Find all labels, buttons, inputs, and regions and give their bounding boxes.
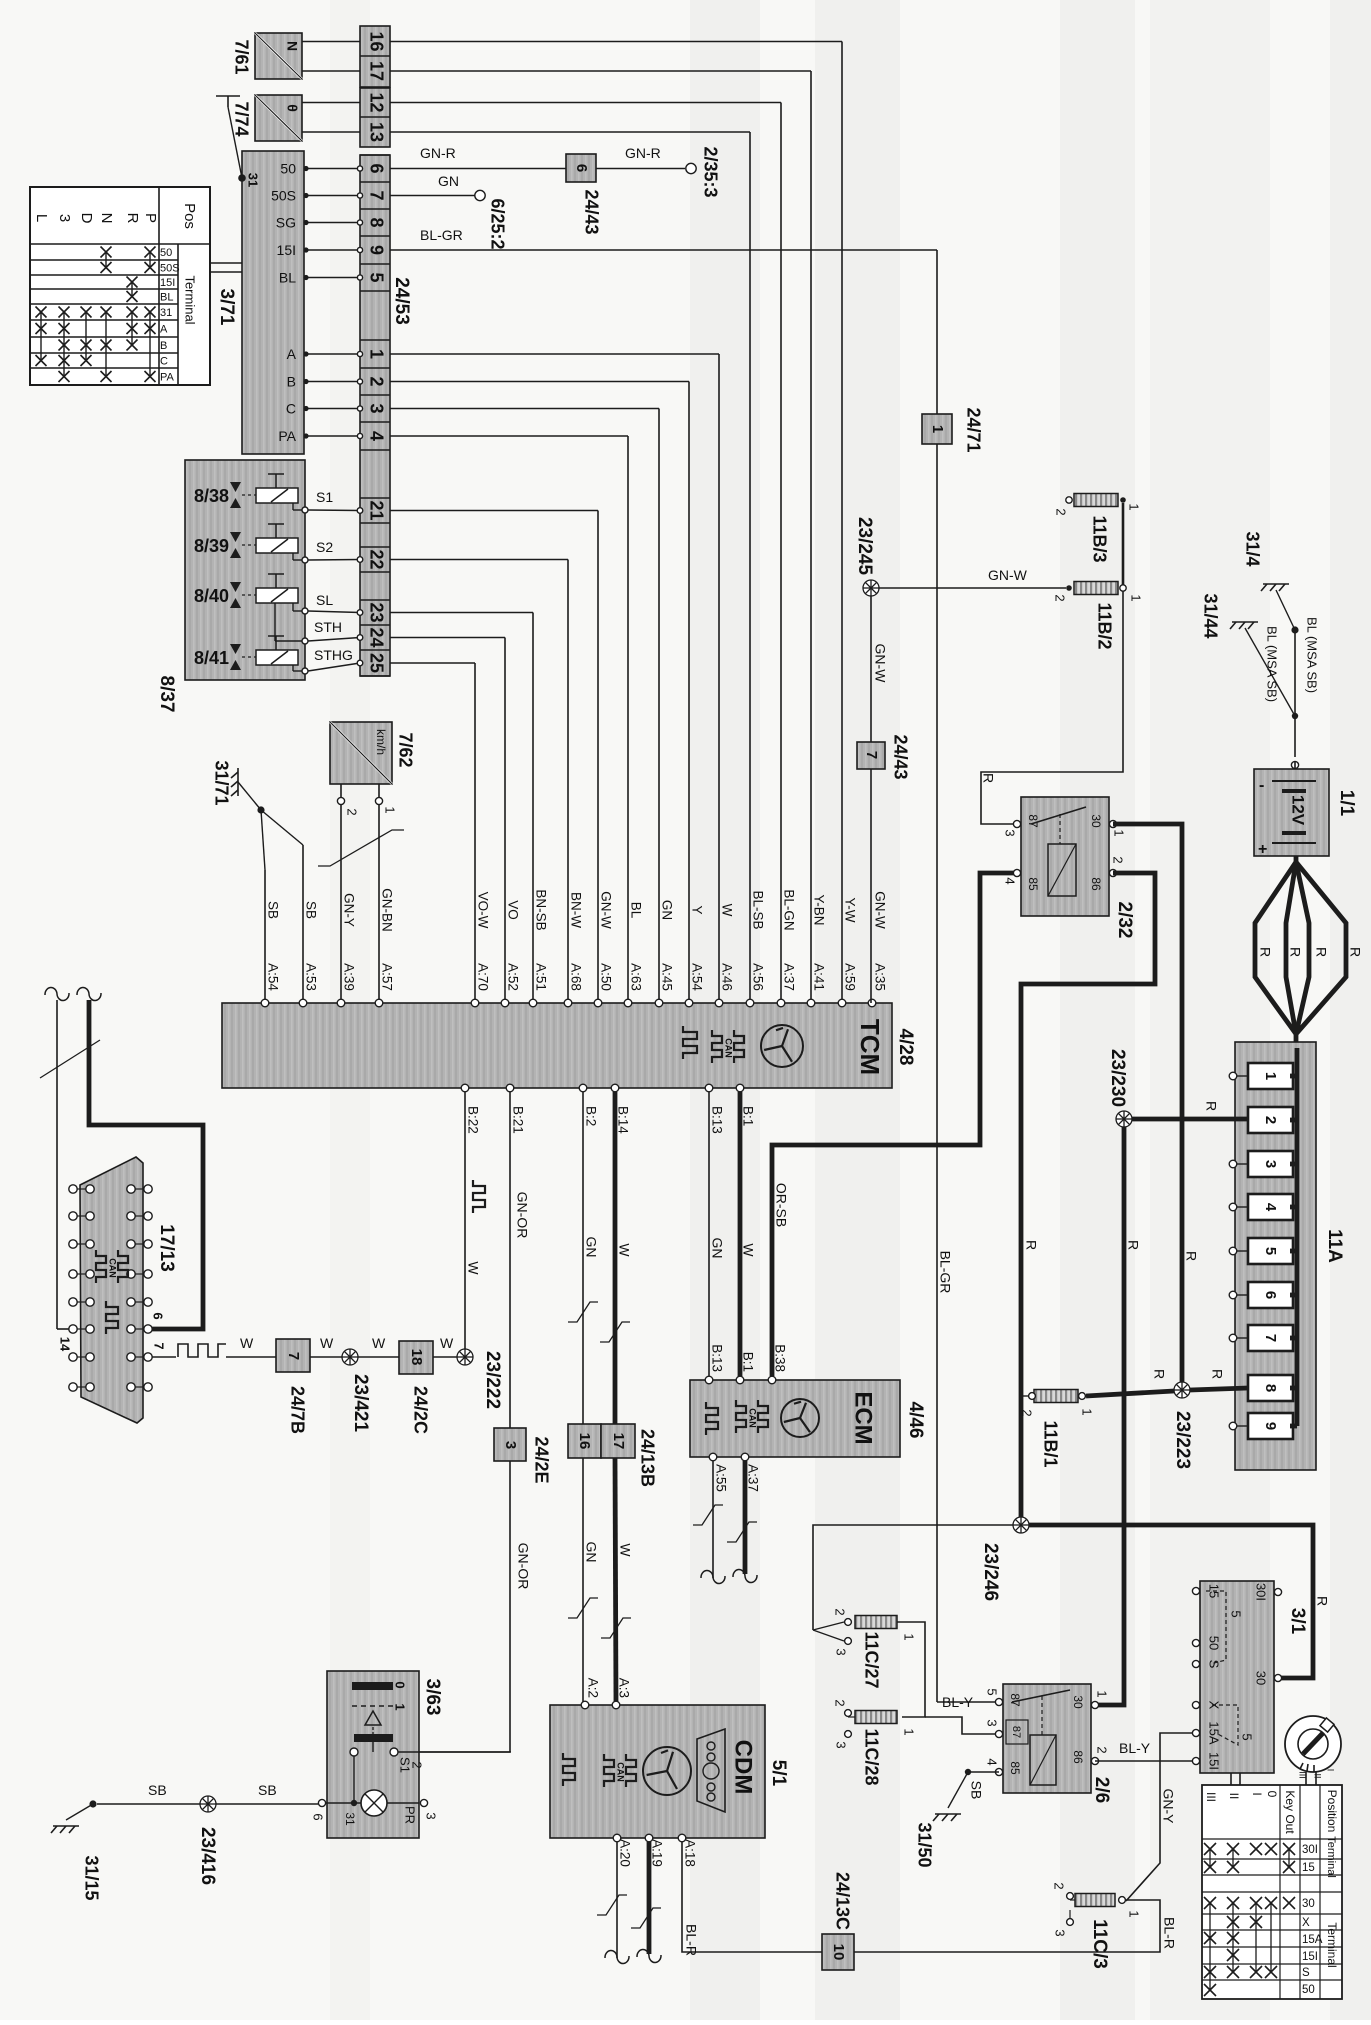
- svg-text:BL-R: BL-R: [683, 1924, 699, 1956]
- svg-text:11B/1: 11B/1: [1040, 1420, 1060, 1467]
- svg-text:31/44: 31/44: [1200, 593, 1220, 638]
- svg-text:2: 2: [1111, 856, 1126, 863]
- svg-text:BL: BL: [628, 902, 643, 919]
- svg-text:50: 50: [1207, 1636, 1222, 1650]
- svg-text:1: 1: [1262, 1072, 1279, 1080]
- svg-text:6: 6: [151, 1312, 166, 1319]
- svg-text:30: 30: [1089, 814, 1103, 828]
- svg-text:Position: Position: [1325, 1790, 1339, 1833]
- svg-text:R: R: [1151, 1369, 1167, 1379]
- svg-text:31/4: 31/4: [1242, 531, 1262, 566]
- svg-text:R: R: [1203, 1101, 1219, 1111]
- svg-text:A:52: A:52: [505, 963, 520, 991]
- svg-text:VO: VO: [505, 900, 520, 920]
- svg-text:W: W: [719, 904, 734, 917]
- svg-text:3: 3: [1262, 1160, 1279, 1168]
- svg-text:I: I: [1250, 1792, 1264, 1795]
- svg-text:W: W: [320, 1335, 334, 1351]
- svg-text:III: III: [1204, 1792, 1218, 1802]
- svg-text:24: 24: [366, 627, 386, 647]
- svg-text:A:53: A:53: [303, 963, 318, 991]
- svg-text:3/63: 3/63: [422, 1679, 443, 1716]
- svg-text:Y-W: Y-W: [842, 897, 857, 922]
- svg-text:1: 1: [1129, 594, 1144, 601]
- svg-text:2/35:3: 2/35:3: [700, 146, 720, 197]
- svg-text:1: 1: [1095, 1690, 1110, 1697]
- svg-text:+: +: [1258, 841, 1267, 858]
- svg-text:GN-W: GN-W: [872, 644, 888, 684]
- svg-text:23/230: 23/230: [1107, 1049, 1128, 1107]
- svg-text:15I: 15I: [1207, 1752, 1222, 1770]
- svg-text:A:41: A:41: [811, 963, 826, 991]
- svg-text:S: S: [1302, 1967, 1310, 1979]
- svg-text:2: 2: [410, 1761, 425, 1768]
- svg-text:P: P: [142, 213, 159, 223]
- svg-text:17: 17: [610, 1433, 627, 1450]
- svg-text:R: R: [1287, 947, 1303, 957]
- svg-text:4: 4: [1003, 877, 1018, 884]
- svg-text:24/7B: 24/7B: [287, 1386, 307, 1434]
- svg-text:B:38: B:38: [772, 1344, 787, 1372]
- svg-text:C: C: [160, 356, 168, 368]
- svg-text:3: 3: [834, 1648, 849, 1655]
- svg-text:13: 13: [366, 122, 386, 142]
- svg-text:A: A: [160, 324, 168, 336]
- svg-text:85: 85: [1008, 1761, 1022, 1775]
- svg-text:1: 1: [929, 425, 946, 433]
- svg-text:A:68: A:68: [568, 963, 583, 991]
- svg-text:7: 7: [152, 1342, 167, 1349]
- svg-text:50S: 50S: [271, 188, 296, 204]
- svg-text:A:54: A:54: [689, 963, 704, 991]
- svg-text:A:56: A:56: [750, 963, 765, 991]
- svg-text:R: R: [1313, 947, 1329, 957]
- svg-text:GN: GN: [709, 1238, 725, 1259]
- svg-text:11A: 11A: [1324, 1229, 1345, 1263]
- svg-text:A:20: A:20: [617, 1839, 632, 1867]
- svg-text:4: 4: [1262, 1203, 1279, 1212]
- svg-text:23: 23: [366, 602, 386, 622]
- svg-text:II: II: [1313, 1773, 1323, 1778]
- svg-text:Key Out: Key Out: [1283, 1790, 1297, 1834]
- svg-text:2: 2: [1095, 1746, 1110, 1753]
- svg-text:0: 0: [1265, 1791, 1279, 1798]
- svg-text:Y-BN: Y-BN: [811, 894, 826, 925]
- svg-text:7: 7: [863, 751, 880, 759]
- svg-text:4: 4: [985, 1758, 1000, 1765]
- svg-text:50: 50: [160, 247, 172, 259]
- svg-text:A:51: A:51: [533, 963, 548, 991]
- svg-text:24/2E: 24/2E: [531, 1436, 551, 1483]
- svg-text:B: B: [160, 340, 167, 352]
- svg-text:5/1: 5/1: [768, 1760, 789, 1787]
- svg-text:16: 16: [576, 1433, 593, 1450]
- svg-text:23/416: 23/416: [197, 1827, 218, 1885]
- svg-text:7/62: 7/62: [395, 732, 415, 767]
- svg-text:B:14: B:14: [615, 1106, 630, 1134]
- svg-text:85: 85: [1026, 877, 1040, 891]
- svg-text:B:1: B:1: [740, 1352, 755, 1372]
- svg-text:2: 2: [833, 1699, 848, 1706]
- svg-text:GN-OR: GN-OR: [515, 1543, 531, 1590]
- svg-text:2: 2: [366, 376, 386, 386]
- svg-text:14: 14: [58, 1337, 73, 1352]
- svg-text:31/71: 31/71: [211, 760, 231, 805]
- svg-text:OR-SB: OR-SB: [773, 1183, 789, 1227]
- svg-text:2: 2: [1054, 508, 1069, 515]
- svg-text:30: 30: [1254, 1671, 1269, 1685]
- svg-text:A:37: A:37: [781, 963, 796, 991]
- svg-text:10: 10: [830, 1944, 847, 1961]
- svg-text:W: W: [240, 1335, 254, 1351]
- svg-text:11C/28: 11C/28: [861, 1728, 881, 1785]
- svg-text:C: C: [286, 401, 296, 417]
- svg-text:R: R: [980, 773, 996, 783]
- svg-text:11B/3: 11B/3: [1089, 515, 1109, 562]
- svg-text:A:59: A:59: [842, 963, 857, 991]
- svg-text:22: 22: [366, 549, 386, 569]
- svg-text:CDM: CDM: [730, 1740, 757, 1795]
- svg-text:A:3: A:3: [616, 1678, 631, 1698]
- svg-text:1: 1: [393, 1703, 408, 1710]
- svg-text:R: R: [1347, 947, 1363, 957]
- svg-text:2: 2: [345, 808, 360, 815]
- svg-text:B:2: B:2: [583, 1106, 598, 1126]
- svg-text:A: A: [287, 346, 297, 362]
- svg-text:ECM: ECM: [850, 1391, 877, 1444]
- svg-text:23/421: 23/421: [350, 1374, 371, 1433]
- svg-text:15I: 15I: [277, 242, 296, 258]
- svg-text:11B/2: 11B/2: [1094, 602, 1114, 649]
- svg-text:W: W: [440, 1335, 454, 1351]
- svg-text:Pos: Pos: [181, 203, 198, 229]
- svg-text:A:19: A:19: [649, 1839, 664, 1867]
- svg-text:23/223: 23/223: [1172, 1411, 1193, 1469]
- svg-text:8/41: 8/41: [194, 648, 229, 668]
- svg-text:BN-SB: BN-SB: [533, 889, 548, 930]
- svg-text:R: R: [1209, 1369, 1225, 1379]
- svg-text:BL-SB: BL-SB: [750, 890, 765, 929]
- svg-text:GN-W: GN-W: [988, 567, 1028, 583]
- svg-text:30: 30: [1302, 1898, 1315, 1910]
- svg-text:6: 6: [573, 164, 590, 172]
- svg-text:2/6: 2/6: [1091, 1777, 1112, 1803]
- svg-text:CAN: CAN: [748, 1408, 758, 1428]
- svg-text:7: 7: [285, 1352, 302, 1360]
- svg-text:SL: SL: [316, 592, 333, 608]
- svg-text:21: 21: [366, 500, 386, 520]
- svg-text:7/74: 7/74: [231, 101, 251, 136]
- svg-text:STHG: STHG: [314, 647, 353, 663]
- svg-text:1: 1: [1080, 1408, 1095, 1415]
- svg-text:BN-W: BN-W: [568, 892, 583, 928]
- svg-text:BL-GR: BL-GR: [937, 1251, 953, 1294]
- svg-text:A:37: A:37: [745, 1464, 760, 1492]
- svg-text:3: 3: [834, 1741, 849, 1748]
- svg-text:12V: 12V: [1289, 795, 1308, 826]
- svg-text:8/38: 8/38: [194, 486, 229, 506]
- svg-text:24/43: 24/43: [890, 734, 910, 779]
- svg-text:A:35: A:35: [872, 963, 887, 991]
- svg-text:BL-R: BL-R: [1161, 1917, 1177, 1949]
- svg-text:W: W: [372, 1335, 386, 1351]
- svg-text:-: -: [1259, 777, 1264, 794]
- svg-text:GN: GN: [583, 1237, 599, 1258]
- svg-text:1: 1: [366, 349, 386, 359]
- svg-text:1: 1: [902, 1633, 917, 1640]
- svg-text:4: 4: [366, 431, 386, 441]
- svg-text:7/61: 7/61: [231, 39, 251, 74]
- svg-text:SB: SB: [148, 1782, 167, 1798]
- svg-text:8: 8: [1262, 1384, 1279, 1392]
- svg-text:9: 9: [366, 245, 386, 255]
- svg-text:N: N: [98, 213, 115, 224]
- svg-text:24/53: 24/53: [391, 277, 412, 325]
- svg-text:B:21: B:21: [510, 1106, 525, 1134]
- svg-text:50: 50: [280, 161, 296, 177]
- svg-text:L: L: [33, 214, 50, 222]
- svg-text:A:55: A:55: [713, 1464, 728, 1492]
- svg-text:2: 2: [833, 1608, 848, 1615]
- svg-text:A:70: A:70: [475, 963, 490, 991]
- svg-text:GN-OR: GN-OR: [514, 1192, 530, 1239]
- svg-text:25: 25: [366, 653, 386, 673]
- svg-text:3/1: 3/1: [1287, 1608, 1308, 1635]
- svg-text:15A: 15A: [1207, 1721, 1222, 1744]
- svg-text:8/39: 8/39: [194, 536, 229, 556]
- svg-text:24/43: 24/43: [581, 189, 601, 234]
- svg-text:87: 87: [1010, 1726, 1022, 1738]
- svg-text:23/246: 23/246: [980, 1543, 1001, 1601]
- svg-text:3/71: 3/71: [216, 289, 237, 326]
- svg-text:1: 1: [902, 1728, 917, 1735]
- svg-text:31/15: 31/15: [81, 1855, 101, 1900]
- svg-text:A:18: A:18: [682, 1839, 697, 1867]
- svg-text:GN: GN: [583, 1542, 599, 1563]
- svg-text:31: 31: [246, 173, 261, 187]
- svg-text:3: 3: [1003, 829, 1018, 836]
- svg-text:GN-Y: GN-Y: [1160, 1789, 1176, 1825]
- svg-text:B: B: [287, 374, 296, 390]
- svg-text:3: 3: [502, 1441, 519, 1449]
- svg-text:A:39: A:39: [341, 963, 356, 991]
- svg-text:23/245: 23/245: [854, 517, 875, 576]
- svg-text:SG: SG: [276, 215, 296, 231]
- svg-text:3: 3: [366, 403, 386, 413]
- svg-text:R: R: [1125, 1240, 1141, 1250]
- svg-text:SB: SB: [968, 1781, 984, 1800]
- svg-text:X: X: [1302, 1917, 1310, 1929]
- svg-text:W: W: [465, 1261, 481, 1275]
- svg-text:86: 86: [1089, 877, 1103, 891]
- svg-text:S2: S2: [316, 539, 333, 555]
- svg-text:S: S: [1207, 1660, 1222, 1669]
- svg-text:I: I: [1326, 1769, 1336, 1772]
- svg-text:30: 30: [1071, 1695, 1085, 1709]
- svg-text:km/h: km/h: [374, 729, 388, 755]
- svg-text:7: 7: [1262, 1334, 1279, 1342]
- svg-text:θ: θ: [284, 104, 300, 112]
- svg-text:6: 6: [311, 1813, 326, 1820]
- svg-text:1: 1: [1127, 503, 1142, 510]
- svg-text:W: W: [616, 1243, 632, 1257]
- svg-text:31: 31: [343, 1812, 357, 1826]
- svg-text:6: 6: [366, 163, 386, 173]
- svg-text:A:2: A:2: [585, 1678, 600, 1698]
- svg-text:31/50: 31/50: [914, 1822, 934, 1867]
- svg-text:TCM: TCM: [855, 1019, 885, 1075]
- svg-text:7: 7: [366, 190, 386, 200]
- svg-text:8/37: 8/37: [156, 676, 177, 713]
- svg-text:5: 5: [1229, 1610, 1244, 1617]
- svg-text:11C/27: 11C/27: [861, 1631, 881, 1688]
- svg-text:2: 2: [1053, 594, 1068, 601]
- svg-text:15I: 15I: [1302, 1951, 1318, 1963]
- svg-text:R: R: [1023, 1240, 1039, 1250]
- svg-text:2: 2: [1020, 1409, 1035, 1416]
- svg-text:9: 9: [1262, 1422, 1279, 1430]
- svg-text:BL-GR: BL-GR: [420, 227, 463, 243]
- svg-text:GN-W: GN-W: [598, 891, 613, 929]
- svg-text:A:50: A:50: [598, 963, 613, 991]
- svg-text:A:54: A:54: [265, 963, 280, 991]
- svg-text:B:13: B:13: [709, 1344, 724, 1372]
- svg-text:5: 5: [366, 272, 386, 282]
- svg-text:A:63: A:63: [628, 963, 643, 991]
- svg-text:SB: SB: [258, 1782, 277, 1798]
- svg-text:3: 3: [424, 1812, 439, 1819]
- svg-text:3: 3: [56, 214, 73, 222]
- svg-text:5: 5: [985, 1688, 1000, 1695]
- svg-text:BL (MSA SB): BL (MSA SB): [1265, 626, 1280, 702]
- svg-text:GN-BN: GN-BN: [379, 888, 394, 932]
- svg-text:VO-W: VO-W: [475, 892, 490, 929]
- svg-text:GN-R: GN-R: [420, 145, 456, 161]
- svg-text:3: 3: [985, 1719, 1000, 1726]
- svg-text:GN-Y: GN-Y: [341, 893, 356, 927]
- svg-text:B:22: B:22: [465, 1106, 480, 1134]
- svg-text:Terminal: Terminal: [1325, 1922, 1339, 1967]
- svg-text:18: 18: [408, 1349, 425, 1366]
- svg-text:B:13: B:13: [709, 1106, 724, 1134]
- svg-text:1: 1: [1112, 829, 1127, 836]
- svg-text:R: R: [1183, 1251, 1199, 1261]
- svg-text:30I: 30I: [1254, 1583, 1269, 1601]
- svg-text:5: 5: [1262, 1247, 1279, 1255]
- svg-text:GN-R: GN-R: [625, 145, 661, 161]
- svg-text:PR: PR: [403, 1806, 418, 1824]
- svg-text:BL: BL: [160, 292, 173, 304]
- svg-text:6: 6: [1262, 1291, 1279, 1299]
- svg-text:A:45: A:45: [659, 963, 674, 991]
- svg-text:15I: 15I: [160, 277, 175, 289]
- svg-text:D: D: [78, 213, 95, 224]
- svg-text:31: 31: [160, 307, 172, 319]
- svg-text:30I: 30I: [1302, 1844, 1318, 1856]
- svg-text:24/13C: 24/13C: [832, 1872, 852, 1930]
- svg-text:86: 86: [1071, 1750, 1085, 1764]
- svg-text:6/25:2: 6/25:2: [487, 198, 507, 249]
- svg-text:B:1: B:1: [740, 1106, 755, 1126]
- svg-text:BL: BL: [279, 270, 296, 286]
- svg-text:SB: SB: [265, 901, 280, 919]
- svg-text:2/32: 2/32: [1114, 902, 1135, 939]
- svg-text:15: 15: [1302, 1862, 1315, 1874]
- svg-text:0: 0: [393, 1681, 408, 1688]
- svg-text:1: 1: [1127, 1910, 1142, 1917]
- svg-text:Terminal: Terminal: [183, 275, 198, 324]
- svg-text:24/2C: 24/2C: [410, 1386, 430, 1434]
- svg-text:17: 17: [366, 61, 386, 81]
- svg-text:R: R: [124, 213, 141, 224]
- svg-text:16: 16: [366, 31, 386, 51]
- svg-text:11C/3: 11C/3: [1089, 1919, 1110, 1969]
- svg-text:GN: GN: [659, 900, 674, 920]
- svg-text:12: 12: [366, 92, 386, 112]
- svg-text:BL-Y: BL-Y: [1119, 1740, 1151, 1756]
- svg-text:2: 2: [1262, 1116, 1279, 1124]
- svg-text:Terminal: Terminal: [1325, 1836, 1337, 1878]
- svg-text:1/1: 1/1: [1336, 790, 1357, 817]
- svg-text:PA: PA: [160, 372, 175, 384]
- svg-text:5: 5: [1240, 1733, 1255, 1740]
- svg-text:Y: Y: [689, 905, 704, 914]
- svg-text:SB: SB: [303, 901, 318, 919]
- svg-text:8: 8: [366, 217, 386, 227]
- svg-text:BL-GN: BL-GN: [781, 889, 796, 930]
- svg-text:2: 2: [1052, 1882, 1067, 1889]
- svg-text:CAN: CAN: [108, 1258, 118, 1278]
- svg-text:BL-Y: BL-Y: [942, 1694, 974, 1710]
- svg-text:3: 3: [1053, 1929, 1068, 1936]
- svg-text:PA: PA: [278, 428, 296, 444]
- svg-text:17/13: 17/13: [156, 1224, 177, 1272]
- svg-text:15A: 15A: [1302, 1934, 1323, 1946]
- svg-text:50: 50: [1302, 1984, 1315, 1996]
- svg-text:A:57: A:57: [379, 963, 394, 991]
- svg-text:II: II: [1227, 1793, 1241, 1800]
- svg-text:23/222: 23/222: [482, 1351, 503, 1409]
- svg-text:4/46: 4/46: [905, 1402, 926, 1439]
- svg-text:1: 1: [383, 806, 398, 813]
- svg-text:50S: 50S: [160, 263, 180, 275]
- svg-text:S1: S1: [316, 489, 333, 505]
- svg-text:CAN: CAN: [724, 1038, 734, 1058]
- svg-text:CAN: CAN: [616, 1762, 626, 1782]
- svg-text:24/13B: 24/13B: [637, 1429, 657, 1487]
- svg-text:R: R: [1257, 947, 1273, 957]
- svg-text:4/28: 4/28: [895, 1029, 916, 1066]
- svg-text:24/71: 24/71: [963, 407, 983, 452]
- svg-text:W: W: [740, 1243, 756, 1257]
- svg-text:8/40: 8/40: [194, 586, 229, 606]
- svg-text:R: R: [1314, 1596, 1330, 1606]
- svg-text:STH: STH: [314, 619, 342, 635]
- svg-text:GN-W: GN-W: [872, 891, 887, 929]
- svg-text:A:46: A:46: [719, 963, 734, 991]
- svg-text:N: N: [284, 41, 300, 51]
- svg-text:GN: GN: [438, 173, 459, 189]
- svg-text:BL (MSA SB): BL (MSA SB): [1305, 617, 1320, 693]
- svg-text:W: W: [617, 1543, 633, 1557]
